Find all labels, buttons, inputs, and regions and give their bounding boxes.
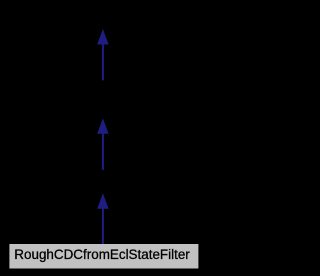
svg-text:RoughCDCfromEclStateFilter: RoughCDCfromEclStateFilter xyxy=(14,247,190,262)
